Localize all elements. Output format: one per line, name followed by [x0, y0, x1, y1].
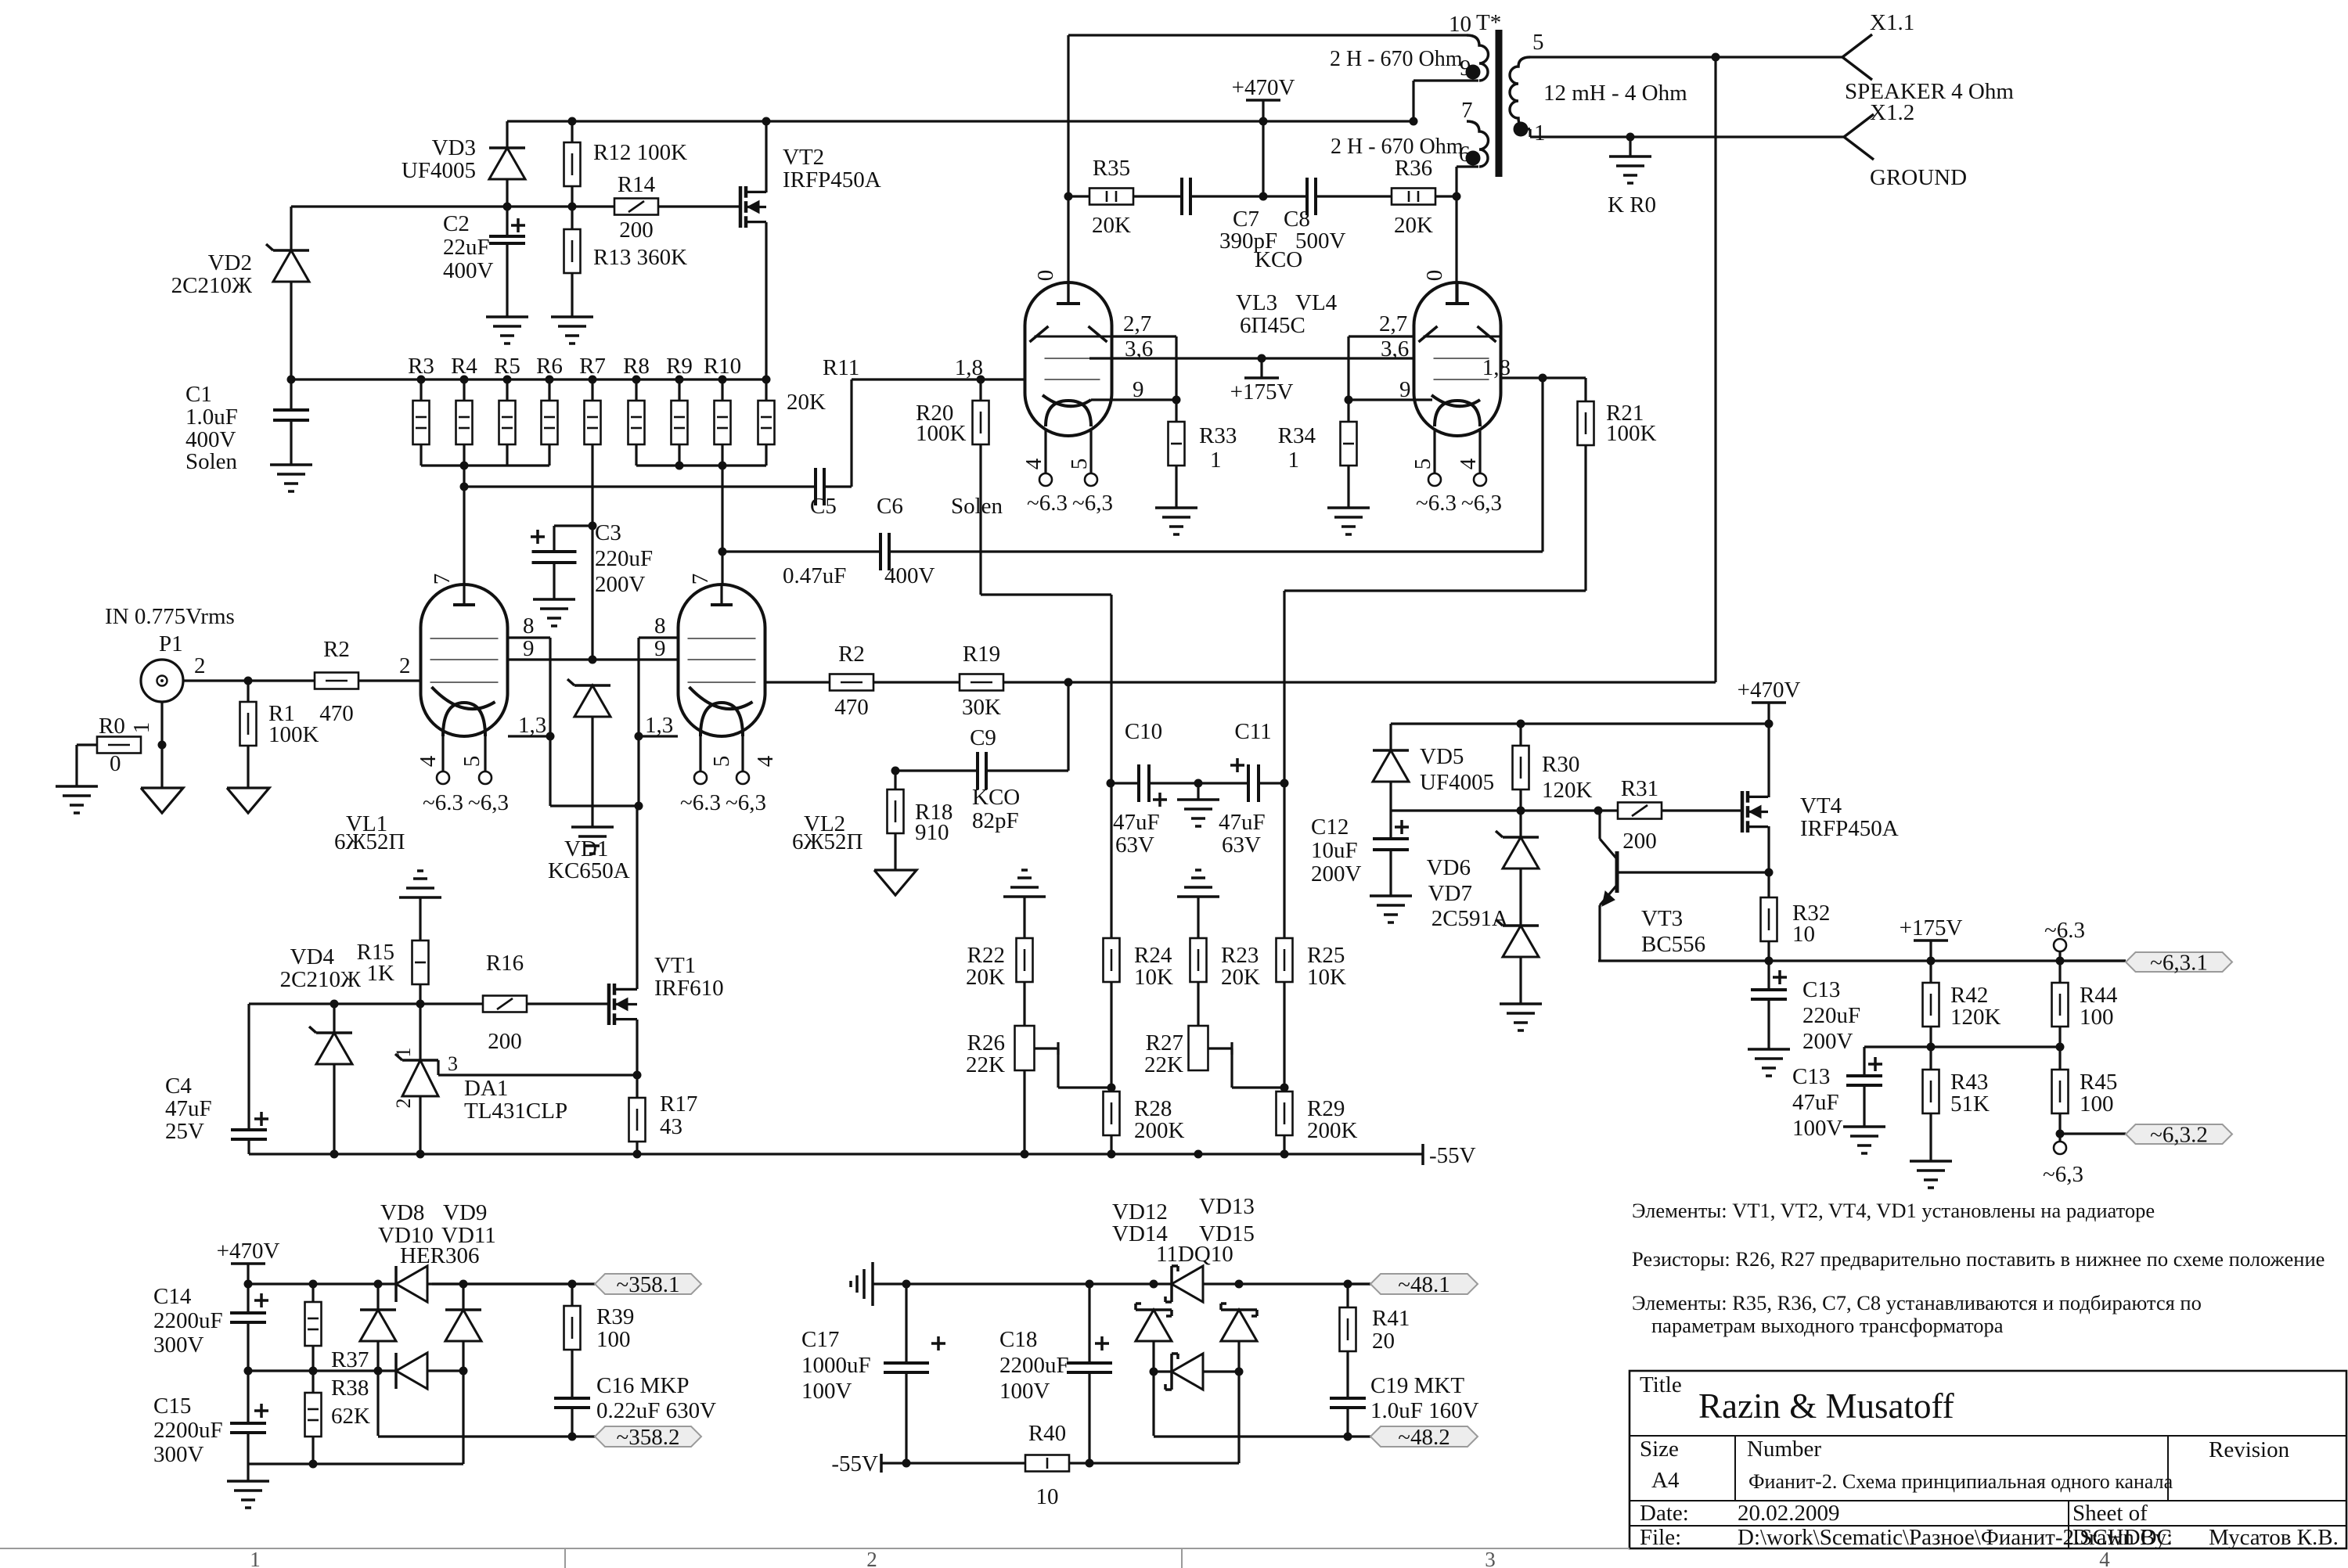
svg-text:R35: R35 — [1093, 156, 1130, 181]
resistor R34 — [1341, 400, 1357, 508]
svg-text:0.47uF: 0.47uF — [783, 563, 846, 588]
wire VT1 source — [636, 1020, 638, 1075]
svg-text:K R0: K R0 — [1608, 192, 1656, 218]
resistor R1 — [240, 681, 257, 788]
svg-text:120K: 120K — [1950, 1005, 2001, 1030]
svg-text:1: 1 — [250, 1548, 261, 1568]
inverted ground R15 — [399, 871, 441, 940]
svg-text:IRFP450A: IRFP450A — [1800, 816, 1899, 841]
label C7 C8 — [1219, 207, 1346, 272]
svg-text:R14: R14 — [618, 172, 656, 197]
svg-text:Title: Title — [1640, 1372, 1682, 1397]
svg-text:100V: 100V — [999, 1379, 1050, 1404]
resistor R23 — [1190, 938, 1207, 982]
label VL4 27 — [1379, 311, 1407, 336]
diode VD5 — [1373, 724, 1409, 811]
wire C3 top link — [554, 526, 592, 552]
wire VL3 27 row — [1112, 335, 1176, 337]
wire speaker cold — [1530, 129, 1844, 137]
svg-text:1.0uF: 1.0uF — [185, 405, 238, 430]
svg-text:220uF: 220uF — [595, 546, 653, 571]
label R15 — [357, 940, 394, 986]
label C19 — [1370, 1373, 1479, 1423]
label R2b — [834, 642, 869, 720]
svg-text:~358.2: ~358.2 — [617, 1425, 680, 1450]
junction dot R18 — [891, 767, 900, 775]
svg-text:51K: 51K — [1950, 1091, 1990, 1117]
svg-text:IRF610: IRF610 — [654, 976, 724, 1001]
wire bias top rail — [1391, 722, 1769, 725]
svg-text:R34: R34 — [1278, 423, 1316, 448]
svg-text:C19 MKT: C19 MKT — [1370, 1373, 1464, 1398]
label VL4 9 — [1399, 377, 1411, 402]
wire P1 pin1 — [160, 702, 163, 788]
label C10 — [1125, 719, 1162, 744]
wire VL1 box vertical — [549, 638, 551, 806]
svg-text:R7: R7 — [579, 354, 606, 379]
svg-text:1,3: 1,3 — [518, 713, 546, 738]
svg-text:200: 200 — [619, 218, 654, 243]
svg-text:R30: R30 — [1542, 752, 1579, 777]
label VL3 heater volt — [1027, 491, 1113, 516]
svg-text:C17: C17 — [801, 1327, 839, 1352]
svg-text:2200uF: 2200uF — [999, 1353, 1069, 1378]
wire bridge right col — [462, 1284, 464, 1464]
junction dot R27 wiper — [1280, 1084, 1289, 1092]
svg-text:63V: 63V — [1115, 833, 1154, 858]
wire -55V rail — [249, 1153, 1423, 1155]
power +175V mid — [1230, 358, 1294, 405]
svg-text:C14: C14 — [153, 1284, 192, 1309]
label VD3 — [402, 135, 476, 183]
junction dots -55V — [330, 1150, 1289, 1159]
resistor R41 — [1340, 1284, 1356, 1398]
capacitor C4 — [231, 1112, 268, 1139]
junction dots top rail — [568, 117, 771, 126]
wire flag 482 link — [1154, 1435, 1370, 1437]
resistor R33 — [1169, 400, 1185, 508]
junction dots bottom bus — [460, 462, 727, 470]
junction dots bridge48 — [1150, 1368, 1244, 1376]
svg-text:22K: 22K — [1144, 1052, 1183, 1077]
svg-text:47uF: 47uF — [1792, 1090, 1839, 1115]
svg-text:VD4: VD4 — [290, 944, 335, 969]
diode VD13 — [1165, 1266, 1203, 1302]
svg-text:1: 1 — [129, 722, 154, 734]
wire flag1 link — [2061, 959, 2126, 962]
wire bridge48 mid — [1154, 1370, 1239, 1372]
label C5 C6 value — [783, 563, 935, 588]
svg-text:3: 3 — [1485, 1548, 1496, 1568]
svg-text:KCO: KCO — [972, 785, 1020, 810]
svg-text:20K: 20K — [1092, 213, 1131, 238]
label VD2 — [171, 250, 252, 298]
svg-text:9: 9 — [1133, 377, 1144, 402]
zener VD7 — [1496, 869, 1539, 1004]
transformer core — [1496, 30, 1503, 177]
label R11 — [823, 355, 859, 380]
label SPEAKER — [1845, 79, 2014, 104]
junction dot C1 bus — [287, 376, 296, 384]
title block subject — [1748, 1470, 2173, 1493]
svg-text:4: 4 — [1456, 458, 1481, 469]
wire KR0 stub — [1629, 137, 1631, 156]
junction dot KR0 — [1626, 133, 1635, 142]
net flag ~358.1 — [595, 1272, 701, 1297]
wire bank bottom bus right — [636, 464, 766, 466]
label C9 — [970, 725, 996, 750]
diode VD11 — [445, 1310, 481, 1341]
wire VD2 branch — [290, 207, 292, 250]
svg-text:GROUND: GROUND — [1870, 165, 1967, 190]
svg-text:11DQ10: 11DQ10 — [1156, 1242, 1233, 1267]
wire C3-gnd — [553, 563, 555, 599]
label R20 — [916, 401, 967, 446]
capacitor C10 — [1139, 764, 1167, 807]
svg-text:C9: C9 — [970, 725, 996, 750]
junction dot R10 top — [718, 376, 727, 384]
label VT4 — [1800, 793, 1899, 841]
wire top anode-to-transformer — [1068, 35, 1467, 302]
label P1 pin2 — [194, 653, 206, 678]
junction dot R3 top — [417, 376, 426, 384]
svg-text:3,6: 3,6 — [1381, 336, 1409, 361]
svg-text:30K: 30K — [962, 695, 1001, 720]
wire VT1 drain — [636, 806, 638, 989]
svg-text:6П45С: 6П45С — [1240, 313, 1305, 338]
inverted ground R22 — [1003, 870, 1046, 938]
resistor R24 — [1104, 938, 1120, 982]
junction dot 470 mid — [1259, 192, 1268, 201]
label R27 — [1144, 1030, 1183, 1077]
svg-text:~6,3.2: ~6,3.2 — [2150, 1123, 2208, 1148]
wire VL1 pin13 — [508, 735, 550, 737]
transformer T primary coil 2 — [1457, 121, 1489, 167]
svg-text:1,3: 1,3 — [645, 713, 673, 738]
zener VD4 — [309, 1004, 352, 1154]
label -55V psu — [831, 1451, 881, 1476]
wire R2b-R19 — [873, 681, 960, 683]
svg-text:DA1: DA1 — [464, 1076, 508, 1101]
svg-text:100K: 100K — [916, 421, 967, 446]
svg-text:2C591A: 2C591A — [1431, 906, 1508, 931]
svg-text:~6.3: ~6.3 — [1416, 491, 1457, 516]
junction dot VL1 row — [460, 483, 469, 491]
junction dot R11 top — [762, 376, 771, 384]
svg-text:1,8: 1,8 — [955, 355, 983, 380]
svg-text:A4: A4 — [1651, 1468, 1680, 1493]
wire C7-C8 — [1190, 195, 1307, 197]
junction dot VL2 13 — [635, 732, 643, 741]
wire VL1 pin9 row — [508, 658, 678, 660]
ground arrow under R18 — [874, 870, 917, 895]
label VT2 — [783, 145, 881, 192]
ground under C12 — [1370, 896, 1412, 922]
svg-text:+470V: +470V — [1738, 678, 1801, 703]
junction dots psu bottom — [309, 1460, 318, 1469]
wire VT1 gate row — [249, 1002, 609, 1005]
phase dot coil1 — [1466, 65, 1481, 80]
label VD4 — [280, 944, 361, 992]
svg-text:C18: C18 — [999, 1327, 1037, 1352]
wire VL2 pin8 — [639, 636, 678, 638]
label R2 — [319, 637, 354, 726]
svg-text:2C210Ж: 2C210Ж — [171, 273, 252, 298]
wire R23-R27 — [1197, 982, 1199, 1026]
svg-text:100V: 100V — [801, 1379, 852, 1404]
svg-text:Solen: Solen — [185, 449, 238, 474]
svg-text:2,7: 2,7 — [1379, 311, 1407, 336]
capacitor C14 — [230, 1284, 268, 1371]
wire C4 bottom — [247, 1139, 250, 1154]
wire R25-R29 — [1283, 982, 1285, 1091]
zener VD2 — [266, 244, 309, 282]
svg-text:9: 9 — [1399, 377, 1411, 402]
svg-text:R33: R33 — [1199, 423, 1237, 448]
svg-text:Size: Size — [1640, 1437, 1679, 1462]
label R10 — [704, 354, 741, 379]
svg-text:R5: R5 — [494, 354, 520, 379]
svg-text:2 H - 670 Ohm: 2 H - 670 Ohm — [1330, 47, 1463, 71]
svg-text:C11: C11 — [1234, 719, 1271, 744]
label X1.2 — [1870, 100, 1914, 125]
svg-text:5: 5 — [1532, 30, 1544, 55]
wire C2-gnd — [506, 243, 508, 317]
svg-text:R17: R17 — [660, 1091, 697, 1117]
label VL1 pin2 — [399, 653, 411, 678]
wire +470 drop — [1262, 121, 1264, 196]
resistor R37 — [305, 1284, 322, 1371]
ground arrow under P1 — [141, 788, 183, 813]
svg-text:HER306: HER306 — [400, 1243, 480, 1268]
capacitor C16 — [554, 1398, 590, 1437]
svg-text:2: 2 — [392, 1099, 415, 1109]
label R0 — [99, 714, 125, 776]
ground under R0 — [56, 786, 98, 813]
junction dot R6 top — [546, 376, 554, 384]
junction dot C9 node — [1064, 678, 1073, 687]
svg-text:C5: C5 — [810, 494, 837, 519]
svg-text:VT1: VT1 — [654, 953, 696, 978]
label C5 C6 — [810, 494, 1003, 519]
svg-text:R41: R41 — [1372, 1306, 1410, 1331]
title block Date — [1640, 1501, 1840, 1526]
svg-text:C15: C15 — [153, 1394, 191, 1419]
wire bank bottom bus left — [421, 464, 549, 466]
ground under VD1 — [571, 827, 614, 854]
label VL2 pin9 — [654, 636, 666, 661]
resistor R4 — [456, 379, 473, 466]
svg-text:R38: R38 — [331, 1376, 369, 1401]
svg-text:C13: C13 — [1792, 1064, 1830, 1089]
resistor R45 — [2052, 1047, 2069, 1134]
junction dot VD4 top — [330, 1000, 339, 1009]
label VL3 18 — [955, 355, 983, 380]
ground under R43 — [1910, 1161, 1952, 1188]
label X1.1 — [1870, 10, 1914, 35]
ground under R33 — [1155, 508, 1197, 534]
svg-text:5: 5 — [459, 756, 484, 768]
trimmer R27 — [1189, 1026, 1208, 1070]
device DA1 TL431 — [395, 1004, 637, 1154]
label R36 — [1394, 156, 1433, 238]
junction dot VL4 grid — [1539, 374, 1547, 383]
junction dot P1-R0 — [158, 741, 167, 750]
resistor R18 — [888, 771, 904, 870]
svg-text:120K: 120K — [1542, 778, 1593, 803]
label VL2 pin7 — [688, 574, 713, 585]
svg-text:~6.3: ~6.3 — [1027, 491, 1068, 516]
wire R31 to gate — [1662, 809, 1742, 811]
label VL3 heater pins — [1021, 458, 1092, 469]
resistor R30 — [1513, 724, 1529, 811]
svg-text:R16: R16 — [486, 951, 524, 976]
label VT1 — [654, 953, 724, 1001]
transistor VT1 — [609, 984, 637, 1025]
svg-text:47uF: 47uF — [165, 1096, 212, 1121]
svg-text:Sheet of: Sheet of — [2073, 1501, 2148, 1526]
svg-text:10: 10 — [1792, 922, 1815, 947]
svg-text:TL431CLP: TL431CLP — [464, 1099, 567, 1124]
resistor R39 — [564, 1284, 581, 1398]
ground psu — [227, 1464, 269, 1508]
label R24 — [1134, 943, 1173, 990]
capacitor C13a — [1751, 961, 1787, 1049]
svg-text:20: 20 — [1372, 1329, 1395, 1354]
junction dots 175 row — [1765, 957, 2065, 966]
label VL3 pin0 — [1033, 270, 1058, 282]
power +470V right — [1738, 678, 1801, 724]
wire VL2 grid row — [765, 681, 830, 683]
label C4 — [165, 1074, 212, 1144]
svg-text:4: 4 — [1021, 458, 1046, 469]
label C13a — [1802, 977, 1860, 1054]
wire R25 column — [1283, 783, 1285, 940]
label VL1 — [334, 811, 405, 854]
heater circles VL3 — [1039, 473, 1097, 486]
label R29 — [1307, 1096, 1358, 1143]
transformer T primary coil 1 — [1413, 35, 1489, 81]
wire feedback row — [1003, 681, 1716, 683]
svg-text:R36: R36 — [1395, 156, 1432, 181]
svg-text:C12: C12 — [1311, 815, 1349, 840]
svg-text:8: 8 — [523, 613, 535, 638]
label VL4 heater volt — [1416, 491, 1502, 516]
wire R20 jog — [981, 595, 1111, 783]
wire -55 row psu — [881, 1462, 1025, 1464]
junction dot R4 top — [460, 376, 469, 384]
junction dot VL3 9 — [1172, 396, 1181, 405]
connector X1.1 — [1842, 34, 1872, 80]
wire VL1 heater leads — [443, 731, 485, 771]
wire R26 bottom — [1023, 1070, 1025, 1154]
svg-text:C2: C2 — [443, 211, 470, 236]
svg-text:UF4005: UF4005 — [1420, 770, 1494, 795]
label VT3 — [1641, 906, 1705, 957]
svg-text:R37: R37 — [331, 1347, 369, 1372]
resistor R42 — [1923, 961, 1939, 1047]
label C17 — [801, 1327, 871, 1404]
svg-text:2: 2 — [866, 1548, 877, 1568]
resistor R13 — [564, 207, 581, 317]
label R16 — [486, 951, 524, 1054]
transistor VT2 — [740, 186, 766, 228]
capacitor C7 — [1182, 178, 1190, 215]
tube VL1 — [421, 584, 508, 736]
svg-text:6Ж52П: 6Ж52П — [334, 829, 405, 854]
label R45 — [2080, 1070, 2117, 1117]
wire C9 drop — [1067, 682, 1069, 771]
title block frame — [1630, 1371, 2346, 1548]
wire +175 row — [1598, 959, 2126, 962]
label R40 — [1028, 1421, 1066, 1509]
svg-text:2 H - 670 Ohm: 2 H - 670 Ohm — [1331, 135, 1464, 159]
capacitor C11 — [1230, 758, 1259, 802]
ground under C1 — [270, 465, 312, 491]
net flag ~358.2 — [595, 1425, 701, 1450]
svg-text:2200uF: 2200uF — [153, 1308, 223, 1333]
label R37 R38 — [331, 1347, 370, 1429]
svg-text:12 mH - 4 Ohm: 12 mH - 4 Ohm — [1543, 81, 1687, 106]
power +470V top — [1232, 75, 1295, 121]
resistor R21 — [1578, 378, 1594, 591]
junction dot C18 low — [1086, 1459, 1094, 1468]
wire C11 right — [1259, 782, 1284, 784]
wire R24-R28 — [1110, 982, 1112, 1091]
circle heater tap top — [2054, 939, 2066, 961]
svg-text:+175V: +175V — [1230, 379, 1294, 405]
label R14 — [618, 172, 656, 243]
capacitor C8 — [1307, 178, 1316, 215]
wire flag2 link — [2060, 1132, 2126, 1135]
capacitor C12 — [1373, 811, 1409, 896]
resistor R2b — [830, 674, 873, 691]
svg-text:File:: File: — [1640, 1525, 1681, 1550]
svg-text:7: 7 — [688, 574, 713, 585]
junction dot VT4 source — [1765, 869, 1774, 877]
svg-text:200K: 200K — [1134, 1118, 1185, 1143]
resistor R17 — [629, 1075, 646, 1154]
wire VL3 heater leads — [1046, 429, 1091, 473]
junction dot bias rail — [1517, 720, 1774, 728]
label R19 — [962, 642, 1001, 720]
svg-text:Solen: Solen — [951, 494, 1003, 519]
label R4 — [451, 354, 477, 379]
label VD12-15 — [1112, 1194, 1255, 1267]
wire C9 right — [986, 769, 1068, 771]
svg-text:~48.2: ~48.2 — [1398, 1425, 1449, 1450]
label VL3 27 — [1123, 311, 1151, 336]
svg-text:910: 910 — [915, 820, 949, 845]
label C12 — [1311, 815, 1362, 886]
junction dot rail-term7 — [1410, 117, 1418, 126]
note line 3 — [1632, 1291, 2202, 1314]
wire feedback riser — [1714, 57, 1716, 682]
svg-text:C1: C1 — [185, 382, 212, 407]
label VL1 pin13 — [518, 713, 546, 738]
wire bridge left col low — [376, 1341, 379, 1436]
junction dots gate row — [1517, 807, 1603, 815]
svg-text:R0: R0 — [99, 714, 125, 739]
wire R40 right — [1069, 1462, 1239, 1464]
junction dot R8 top — [632, 376, 641, 384]
svg-text:VD7: VD7 — [1428, 881, 1472, 906]
svg-text:VD3: VD3 — [432, 135, 476, 160]
wire R28 bottom — [1110, 1135, 1112, 1154]
label VL4 18 — [1482, 355, 1511, 380]
svg-text:1.0uF 160V: 1.0uF 160V — [1370, 1398, 1479, 1423]
wire C6 to VL4 grid — [889, 378, 1543, 552]
